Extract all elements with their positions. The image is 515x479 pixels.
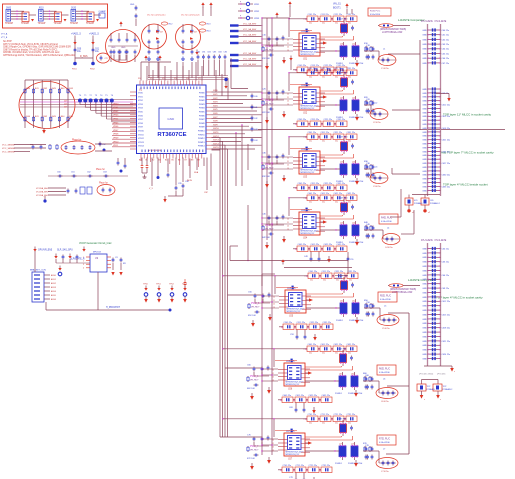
svg-text:x2: x2 [428, 212, 430, 214]
sense line labels left [2, 144, 46, 153]
svg-text:GND: GND [422, 120, 427, 122]
VCCP regulator U9 [83, 252, 111, 272]
svg-text:C69: C69 [289, 407, 294, 409]
VCCP output caps [111, 257, 126, 276]
bus elbow to stage7 [220, 436, 262, 438]
svg-text:C715 22u: C715 22u [296, 465, 305, 467]
svg-text:GND: GND [422, 63, 427, 65]
phase 3 driver right stubs [316, 157, 325, 170]
svg-text:GND: GND [422, 30, 427, 32]
decoupling circle group G1 [106, 30, 141, 63]
mid bus stage4 to stage5 link [230, 246, 238, 261]
ladder 1 cap row 34 [422, 185, 450, 189]
svg-text:GND: GND [422, 257, 427, 259]
svg-text:10: 10 [287, 39, 289, 41]
svg-text:22u: 22u [335, 140, 338, 142]
svg-text:GND: GND [422, 116, 427, 118]
svg-text:C121 22u: C121 22u [334, 14, 343, 16]
phase 6 pwm net label [250, 376, 259, 382]
ladder 1 cap row 7 [422, 57, 449, 61]
phase 6 below-row flag [312, 407, 316, 414]
svg-text:4C9: 4C9 [414, 200, 417, 202]
svg-text:C62: C62 [87, 172, 92, 174]
vertical phase bus [212, 138, 228, 437]
phase 5 driver left stubs [273, 296, 289, 309]
svg-text:VXS9: VXS9 [138, 127, 143, 129]
svg-text:+VADJ_5: +VADJ_5 [89, 33, 99, 36]
svg-text:PWM2: PWM2 [199, 100, 205, 102]
svg-text:GND: GND [422, 183, 427, 185]
comparator note bottom [388, 278, 435, 294]
svg-text:PWM8: PWM8 [199, 123, 205, 125]
connector J2 [38, 8, 46, 26]
ladder 1 cap row 1 [422, 28, 449, 32]
mid cluster x118 [117, 158, 127, 173]
phase 2 inductor L2 [364, 103, 388, 125]
svg-text:C612 22u: C612 22u [442, 105, 451, 107]
svg-text:GND: GND [422, 275, 427, 277]
svg-text:GND: GND [422, 328, 427, 330]
U1 left pins [130, 92, 137, 149]
svg-text:JPR3: JPR3 [254, 18, 260, 20]
svg-text:GND: GND [422, 310, 427, 312]
caps above IC corner [111, 47, 127, 60]
phase 7 driver right stubs [301, 439, 310, 452]
svg-text:C331 22u: C331 22u [347, 132, 356, 134]
phase 7 below-row flag [312, 477, 316, 479]
phase 4 output caps [366, 224, 375, 239]
phase 6 input caps row top [303, 344, 357, 354]
bottom rails top link [262, 274, 275, 286]
phase 3 mosfet pair Q3 [320, 160, 364, 183]
svg-text:R62 10K: R62 10K [247, 388, 255, 390]
phase 3 driver top cap [290, 147, 312, 151]
phase 5 left ground arrow [268, 314, 272, 321]
svg-text:T1: T1 [84, 95, 87, 97]
phase 3 inductor L3 [364, 167, 388, 189]
svg-text:R40: R40 [26, 116, 31, 118]
svg-text:TP52: TP52 [169, 284, 175, 286]
svg-text:R45: R45 [69, 116, 74, 118]
ladder 2 cap row 5 [422, 265, 440, 269]
svg-text:R41: R41 [35, 116, 40, 118]
svg-text:C405 22u: C405 22u [298, 244, 307, 246]
svg-text:C8T59 Romgr-EVCb, TGCO4A-Edum,: C8T59 Romgr-EVCb, TGCO4A-Edum, LMT3-4 Bt… [3, 54, 75, 57]
svg-text:12: 12 [287, 46, 289, 48]
strap wires group 1 [11, 11, 24, 20]
ladder 1 cap row 18 [422, 123, 440, 127]
svg-text:C7 470u: C7 470u [381, 471, 389, 473]
U1 inner pin names top [141, 87, 201, 90]
svg-text:GND: GND [422, 49, 427, 51]
svg-text:C735 22u: C735 22u [322, 465, 331, 467]
ladder 1 cap row 27 [422, 158, 440, 162]
svg-text:VXS10: VXS10 [138, 131, 144, 133]
svg-text:C28: C28 [366, 99, 371, 101]
svg-text:U9: U9 [95, 258, 99, 260]
svg-text:C69 22u: C69 22u [442, 288, 450, 290]
svg-text:R531 PL/C: R531 PL/C [380, 295, 391, 297]
svg-text:GND: GND [422, 190, 427, 192]
pull-up resistor array circle [19, 82, 75, 129]
svg-text:A5V0: A5V0 [51, 274, 57, 277]
svg-text:C5 470u: C5 470u [382, 328, 390, 330]
svg-text:GND: GND [422, 306, 427, 308]
svg-text:GND: GND [422, 253, 427, 255]
svg-text:227: 227 [64, 104, 67, 106]
ladder 1 cap row 20 [422, 130, 440, 134]
svg-text:07L/4-2E7E: 07L/4-2E7E [435, 21, 447, 23]
power flag stage5 top [281, 259, 284, 264]
svg-text:C66 22u: C66 22u [442, 58, 450, 60]
svg-text:GND: GND [422, 112, 427, 114]
phase 6 top feed wire [222, 348, 307, 367]
svg-text:C621 22u: C621 22u [442, 341, 451, 343]
svg-text:x: x [454, 371, 455, 373]
svg-text:VR00: VR00 [113, 103, 119, 105]
svg-text:R_SNS: R_SNS [80, 56, 88, 58]
svg-text:VCORE: VCORE [335, 278, 343, 280]
phase 7 driver U27 [284, 431, 305, 461]
svg-text:VXS7: VXS7 [138, 119, 143, 121]
phase 6 bootstrap fet [339, 349, 353, 367]
svg-text:C211 22u: C211 22u [321, 68, 330, 70]
svg-text:PWM11: PWM11 [198, 134, 205, 136]
svg-text:C431 22u: C431 22u [347, 193, 356, 195]
ladder 1 cap row 12 [422, 99, 440, 103]
svg-text:22u: 22u [309, 76, 312, 78]
power flag top G1 [119, 21, 122, 26]
svg-text:22u: 22u [348, 22, 351, 24]
input capacitor C815 [89, 33, 100, 66]
svg-text:PWM9: PWM9 [199, 127, 205, 129]
svg-text:PWM10: PWM10 [198, 131, 205, 133]
svg-text:10: 10 [273, 296, 275, 298]
ladder 1 cap row 29 [422, 165, 440, 169]
svg-text:22u: 22u [322, 201, 325, 203]
svg-text:GND: GND [422, 105, 427, 107]
svg-text:PWM_6: PWM_6 [250, 376, 259, 378]
phase 6 output caps [365, 375, 374, 390]
svg-text:PGND1: PGND1 [335, 463, 343, 465]
svg-text:0.56u/1206: 0.56u/1206 [379, 372, 390, 374]
svg-text:C49: C49 [304, 256, 309, 258]
phase 1 inductor L1 [364, 49, 396, 71]
svg-text:VXS1: VXS1 [138, 96, 143, 98]
svg-text:MP86957GQT-Z: MP86957GQT-Z [286, 454, 301, 456]
svg-text:C8771 VCCMAX-Stub, VCC1-5VIN,: C8771 VCCMAX-Stub, VCC1-5VIN, C8C375-4/4… [3, 43, 58, 46]
svg-text:GND: GND [422, 350, 427, 352]
ladder2 right flag [450, 366, 455, 373]
phase 4 below-row cluster [304, 252, 320, 262]
svg-text:Q21: Q21 [340, 97, 344, 99]
svg-text:Q51: Q51 [340, 300, 344, 302]
svg-text:C8C561 VCCMAX-Stub, VCC1-5VIN,: C8C561 VCCMAX-Stub, VCC1-5VIN, C8C375-4/… [3, 51, 60, 54]
svg-text:Place for: Place for [72, 140, 81, 142]
svg-text:10: 10 [287, 93, 289, 95]
phase 5 driver top cap [276, 286, 298, 290]
phase 5 mosfet pair Q5 [306, 299, 364, 322]
ladder 1 cap row 8 [422, 61, 449, 65]
svg-text:C415 22u: C415 22u [311, 244, 320, 246]
connector J1 [5, 8, 14, 26]
svg-text:R43: R43 [52, 88, 57, 90]
phase 5 left input cluster [248, 291, 271, 317]
svg-text:C63 22u: C63 22u [442, 262, 450, 264]
wire between caps [75, 56, 93, 58]
bus branch to stage5 [228, 294, 263, 296]
svg-text:GND: GND [422, 332, 427, 334]
ladder 2 cap row 6 [422, 269, 440, 273]
jumper J11 [238, 1, 260, 6]
ladder2 bottom components [417, 380, 452, 402]
phase 1 rail taps [261, 38, 293, 51]
svg-text:VCC_SENSE: VCC_SENSE [2, 151, 15, 153]
ladder 1 cap row 21 [422, 134, 440, 138]
resistor array right labels [64, 101, 67, 109]
svg-text:PCBEADL: PCBEADL [427, 388, 436, 391]
svg-text:TP53: TP53 [182, 284, 188, 286]
option bubble JP4 [199, 29, 211, 33]
svg-text:C61 22u: C61 22u [442, 35, 450, 37]
svg-text:PWM12: PWM12 [198, 138, 205, 140]
socket cap ladder 2 rails [428, 243, 441, 366]
svg-text:12: 12 [272, 376, 274, 378]
svg-text:Q22: Q22 [352, 97, 356, 99]
wires ellipseA to IC [95, 144, 112, 151]
svg-text:Q41: Q41 [340, 222, 344, 224]
svg-text:22u: 22u [309, 422, 312, 424]
phase 3 gate wires [320, 154, 354, 158]
svg-text:C3 470u: C3 470u [373, 186, 381, 188]
svg-text:MP86957GQT-Z: MP86957GQT-Z [301, 54, 316, 56]
U1 right pins [206, 92, 212, 149]
svg-text:BRACKET_CON: BRACKET_CON [30, 268, 46, 271]
svg-text:22u: 22u [335, 352, 338, 354]
svg-text:PGND1: PGND1 [335, 393, 343, 395]
ladder 1 cap row 31 [422, 173, 450, 177]
svg-text:227: 227 [160, 32, 163, 34]
phase 2 output caps [366, 99, 375, 114]
svg-text:q: q [240, 8, 241, 10]
svg-text:VXS2: VXS2 [138, 100, 143, 102]
svg-text:A5V6: A5V6 [51, 298, 57, 301]
bottom riser x204 [203, 158, 205, 167]
phase 7 ground arrow [354, 460, 358, 467]
svg-text:C60 22u: C60 22u [442, 30, 450, 32]
VCCP enable labels [38, 250, 85, 261]
svg-text:Q32: Q32 [352, 161, 356, 163]
svg-text:GND: GND [422, 89, 427, 91]
net label column rows [230, 23, 263, 68]
svg-text:Q72: Q72 [351, 443, 355, 445]
svg-text:C2 470u: C2 470u [373, 122, 381, 124]
phase 3 input caps row top [303, 132, 357, 142]
phase 3 bootstrap fet [340, 137, 354, 155]
phase 6 below-row cluster [289, 403, 305, 413]
phase 3 left ground arrow 2 [265, 181, 269, 188]
svg-text:GND: GND [422, 124, 427, 126]
svg-text:TP422P: TP422P [86, 23, 95, 25]
flag under G3 [195, 50, 198, 55]
output rail top group [388, 40, 420, 174]
svg-text:C705 22u: C705 22u [283, 465, 292, 467]
svg-text:GND: GND [422, 288, 427, 290]
svg-text:Q71: Q71 [339, 443, 343, 445]
row of caps y176 [48, 169, 128, 177]
phase 3 output caps [366, 163, 375, 178]
svg-text:R14: R14 [207, 31, 212, 33]
ladder 1 cap row 6 [422, 52, 449, 56]
phase 7 output caps row bottom [278, 465, 332, 473]
svg-text:GND: GND [422, 58, 427, 60]
svg-text:GND: GND [422, 279, 427, 281]
svg-text:VXS0: VXS0 [138, 93, 143, 95]
svg-text:22u: 22u [335, 76, 338, 78]
svg-text:C601 22u: C601 22u [308, 344, 317, 346]
svg-text:VCC_SA_EHV: VCC_SA_EHV [243, 23, 257, 26]
G3 inner arrows [190, 30, 197, 40]
phase 3 driver left stubs [287, 157, 303, 170]
phase 5 top feed wire [222, 275, 308, 294]
svg-text:JPR1: JPR1 [254, 4, 260, 6]
phase 5 inductor L5 [364, 306, 399, 331]
VCCP bottom wires [46, 272, 172, 312]
svg-text:VCCFA_EHV: VCCFA_EHV [36, 194, 49, 197]
svg-text:GND: GND [422, 151, 427, 153]
cap right of ellipse A [99, 142, 107, 152]
jumper J13 [238, 15, 260, 20]
svg-text:VR03: VR03 [113, 115, 119, 117]
U1 inner pin names bottom [142, 150, 204, 153]
svg-text:GND: GND [422, 186, 427, 188]
test pad R31 [86, 12, 95, 25]
svg-text:B0: B0 [139, 160, 141, 162]
svg-text:TP401P: TP401P [5, 23, 14, 25]
right fan risers [216, 70, 228, 100]
phase 2 ground arrow [355, 114, 359, 121]
svg-text:C615 22u: C615 22u [442, 116, 451, 118]
svg-text:VCC_SA_EHV: VCC_SA_EHV [243, 58, 257, 61]
svg-text:A5V1: A5V1 [51, 278, 57, 281]
svg-text:PCBEADL2: PCBEADL2 [430, 202, 440, 205]
svg-text:VCC_SA_EHV: VCC_SA_EHV [243, 40, 257, 43]
svg-text:PWM4: PWM4 [199, 108, 205, 110]
phase 2 left ground arrow [282, 111, 286, 118]
phase 1 left ground arrow [282, 57, 286, 64]
power flag IC top A [144, 55, 147, 60]
svg-text:VCCFA_EHV: VCCFA_EHV [36, 187, 49, 190]
phase 5 ground arrow [355, 317, 359, 324]
svg-text:B1: B1 [146, 160, 148, 162]
svg-text:VCC_SA_EHV: VCC_SA_EHV [243, 28, 257, 31]
bottom riser x190 [187, 159, 193, 183]
svg-text:C47 R43: C47 R43 [340, 198, 349, 200]
bottom riser x197 [194, 158, 199, 175]
svg-text:SW11: SW11 [213, 132, 219, 134]
phase 5 remote sense box [378, 292, 397, 302]
svg-text:C305 22u: C305 22u [298, 183, 307, 185]
svg-text:U24: U24 [303, 238, 308, 240]
svg-text:C605 22u: C605 22u [283, 395, 292, 397]
svg-text:VCCP Generator Circuit_Intel: VCCP Generator Circuit_Intel [79, 242, 112, 245]
svg-text:12: 12 [273, 303, 275, 305]
svg-text:C111 22u: C111 22u [321, 14, 329, 16]
top edge flag A [201, 2, 204, 16]
svg-text:TP411P: TP411P [38, 23, 46, 25]
phase 2 pwm net label [265, 100, 274, 106]
svg-text:C621 22u: C621 22u [442, 140, 451, 142]
ladder 2 cap row 2 [422, 251, 440, 255]
svg-text:PCBEADL2: PCBEADL2 [443, 388, 453, 391]
svg-text:227: 227 [64, 101, 67, 103]
phase 1 left ground arrow 2 [265, 63, 269, 70]
phase 5 below-row flag [313, 334, 317, 341]
phase 2 left ground arrow 2 [265, 117, 269, 124]
svg-text:PWM_3: PWM_3 [265, 164, 274, 166]
svg-text:GND: GND [422, 284, 427, 286]
svg-text:C725 22u: C725 22u [309, 465, 318, 467]
svg-text:C1 470u: C1 470u [381, 68, 389, 70]
svg-text:IMON: IMON [187, 180, 193, 182]
svg-text:C16: C16 [262, 34, 267, 36]
svg-text:C84: C84 [218, 51, 221, 53]
phase 6 left ground arrow [267, 387, 271, 394]
svg-text:PD52: PD52 [90, 69, 95, 71]
phase 7 top feed wire [222, 418, 307, 437]
phase 4 remote sense box [379, 214, 398, 224]
phase 2 input caps row top [303, 68, 357, 78]
phase 5 pwm net label [251, 303, 260, 309]
svg-text:(R8105.8106/8107.8108): (R8105.8106/8107.8108) [380, 29, 406, 31]
svg-text:SDA: SDA [194, 171, 199, 174]
svg-text:Place for: Place for [99, 182, 108, 184]
svg-text:C66: C66 [247, 364, 252, 366]
svg-text:C81: C81 [202, 51, 205, 53]
VCCP connector J9 [30, 268, 57, 302]
phase 1 gate wires [320, 36, 354, 40]
svg-text:TOP: TOP [443, 386, 448, 388]
phase 4 sense resistors [364, 222, 372, 239]
svg-text:C63 22u: C63 22u [442, 44, 450, 46]
svg-text:GND: GND [422, 97, 427, 99]
svg-text:C618 22u: C618 22u [442, 328, 451, 330]
test pad R11 [21, 12, 30, 25]
svg-text:L2: L2 [375, 103, 378, 105]
svg-text:C511 22u: C511 22u [322, 271, 331, 273]
phase 5 gate wires [306, 293, 354, 297]
svg-text:22u: 22u [323, 279, 326, 281]
ladder 2 cap row 15 [422, 309, 440, 313]
svg-text:Q12: Q12 [352, 43, 356, 45]
svg-text:C27 R23: C27 R23 [340, 73, 349, 75]
top bus labels [138, 78, 201, 80]
svg-text:C315 22u: C315 22u [311, 183, 320, 185]
svg-text:Q31: Q31 [340, 161, 344, 163]
svg-text:VCC_SA_EHV: VCC_SA_EHV [243, 34, 257, 37]
svg-text:R45: R45 [69, 88, 74, 90]
svg-text:V_3: V_3 [149, 188, 153, 190]
svg-text:C105 22u: C105 22u [298, 65, 307, 67]
svg-text:B4: B4 [165, 160, 167, 162]
svg-text:B8: B8 [191, 160, 193, 162]
svg-text:22u: 22u [309, 22, 312, 24]
phase 7 driver top cap [275, 429, 297, 433]
svg-text:C85: C85 [224, 51, 227, 53]
svg-text:MP86957GQT-Z: MP86957GQT-Z [287, 311, 302, 313]
VCCP input flags row [54, 254, 90, 264]
bottom riser x158 [157, 158, 160, 180]
